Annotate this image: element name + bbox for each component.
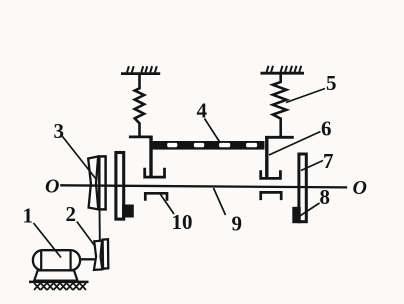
svg-text:9: 9 <box>232 212 243 236</box>
ceiling support right (fixed wall line) <box>261 72 305 75</box>
motor shaft <box>80 258 95 260</box>
svg-text:1: 1 <box>23 204 34 228</box>
belt <box>98 187 101 257</box>
bearing lower bracket right <box>261 192 282 200</box>
leader line 5 <box>286 89 325 103</box>
svg-text:6: 6 <box>321 117 332 141</box>
leader line 2 <box>77 222 95 246</box>
ground hatching <box>34 283 86 290</box>
frame side post left <box>149 136 152 178</box>
disc right (7) <box>299 154 306 222</box>
motor end cap line right <box>69 250 71 270</box>
svg-text:O: O <box>353 177 367 199</box>
spring left <box>135 75 144 137</box>
spring right <box>273 74 287 136</box>
motor base <box>34 270 77 280</box>
svg-text:7: 7 <box>323 149 334 173</box>
ceiling support left (fixed wall line) <box>121 72 160 75</box>
leader line 10 <box>160 193 175 214</box>
pulley 2 rim <box>103 239 109 269</box>
leader line 7 <box>301 161 323 171</box>
svg-text:8: 8 <box>320 185 331 209</box>
frame top plate left <box>129 135 153 138</box>
bearing upper bracket left <box>145 168 165 177</box>
svg-text:O: O <box>45 175 59 197</box>
disc left <box>116 153 124 220</box>
leader line 8 <box>299 203 320 217</box>
svg-text:5: 5 <box>326 71 337 95</box>
ceiling support right hatching <box>267 66 302 72</box>
leader line 9 <box>214 188 226 215</box>
ground line <box>29 281 89 284</box>
pulley 2 groove (hourglass) <box>94 241 102 270</box>
beam 4 (black bar) <box>153 141 265 150</box>
beam slot dashes <box>167 143 257 147</box>
svg-text:2: 2 <box>66 202 77 226</box>
balance mass left (black block) <box>122 205 134 218</box>
pulley 3 groove (hourglass) <box>88 156 98 209</box>
shaft axis line O-O <box>60 185 347 187</box>
leader line 1 <box>34 223 62 258</box>
leader line 6 <box>269 132 321 156</box>
svg-text:10: 10 <box>172 210 193 234</box>
leader line 3 <box>63 137 97 180</box>
bearing upper bracket right <box>261 170 281 178</box>
svg-text:3: 3 <box>54 119 65 143</box>
balance mass right (black block 8) <box>292 207 300 223</box>
leader line 4 <box>205 119 221 143</box>
frame top plate right <box>265 136 294 139</box>
bearing lower bracket left <box>145 193 167 200</box>
motor end cap line left <box>40 250 42 270</box>
ceiling support left hatching <box>127 66 157 72</box>
svg-text:4: 4 <box>197 99 208 123</box>
pulley 3 rim <box>99 156 105 209</box>
motor body (1) <box>33 250 80 270</box>
frame side post right <box>265 137 268 180</box>
